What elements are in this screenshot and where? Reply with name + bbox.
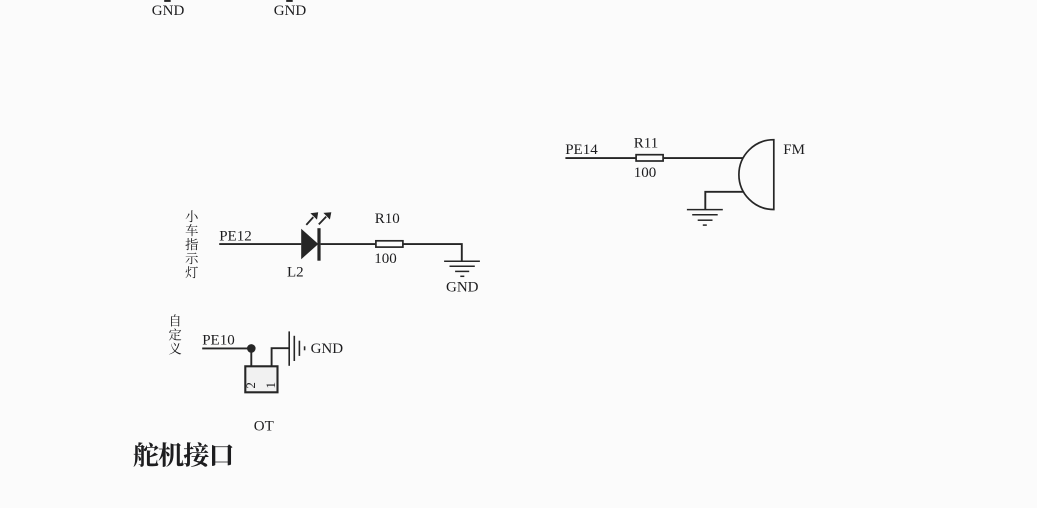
svg-text:GND: GND (152, 3, 185, 19)
label 自定义 (169, 314, 181, 354)
ground (rotated, PE10 circuit) (289, 331, 304, 365)
wire PE12 to LED L2 (219, 243, 301, 245)
LED L2 (301, 212, 331, 261)
node GND (top-left) (152, 3, 185, 19)
svg-text:PE10: PE10 (202, 333, 235, 349)
wire PE14 to resistor R11 (565, 157, 635, 159)
node GND (LED circuit) (446, 280, 479, 296)
wire PE10 to junction (202, 347, 251, 349)
svg-text:PE14: PE14 (565, 142, 598, 158)
resistor R10 (376, 241, 403, 247)
svg-text:GND: GND (311, 341, 344, 357)
svg-text:R10: R10 (375, 211, 400, 227)
node GND (PE10 circuit) (311, 341, 344, 357)
svg-text:OT: OT (254, 419, 274, 435)
wire junction to OT pin 2 (250, 348, 252, 370)
ground stub (clipped, top-left) (164, 0, 171, 2)
svg-text:PE12: PE12 (219, 229, 252, 245)
svg-text:L2: L2 (287, 264, 304, 280)
junction (PE10 net) (247, 344, 256, 353)
svg-text:100: 100 (374, 251, 397, 267)
connector OT (245, 366, 277, 392)
heading 舵机接口 (134, 442, 233, 467)
wire R10 to ground (404, 244, 462, 261)
wire OT pin 1 to ground (272, 348, 289, 370)
wire buzzer FM to ground (705, 192, 743, 210)
node PE12 (219, 229, 252, 245)
buzzer FM (739, 140, 774, 210)
wire R11 to buzzer FM (664, 157, 744, 159)
wire LED L2 to resistor R10 (321, 243, 376, 245)
resistor R11 (636, 155, 663, 161)
ground (LED circuit) (444, 261, 480, 276)
value 100 (R10) (374, 251, 397, 267)
label OT (254, 419, 274, 435)
pin number 2 (243, 382, 258, 389)
ground (buzzer circuit) (687, 210, 723, 226)
svg-text:100: 100 (634, 165, 657, 181)
label FM (783, 142, 805, 158)
label R11 (634, 136, 658, 152)
label L2 (287, 264, 304, 280)
svg-text:1: 1 (263, 382, 278, 389)
svg-text:2: 2 (243, 382, 258, 389)
node GND (top-middle) (274, 3, 307, 19)
svg-text:FM: FM (783, 142, 805, 158)
ground stub (clipped, top-middle) (286, 0, 293, 2)
pin number 1 (263, 382, 278, 389)
svg-text:R11: R11 (634, 136, 658, 152)
svg-text:GND: GND (446, 280, 479, 296)
svg-text:GND: GND (274, 3, 307, 19)
label R10 (375, 211, 400, 227)
node PE10 (202, 333, 235, 349)
value 100 (R11) (634, 165, 657, 181)
label 小车指示灯 (185, 210, 197, 278)
node PE14 (565, 142, 598, 158)
